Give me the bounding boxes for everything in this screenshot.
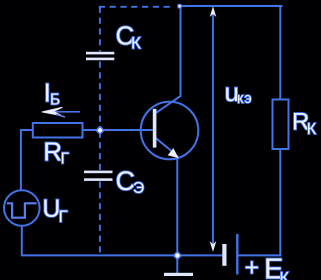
generator UG pulse symbol	[7, 203, 37, 217]
label CK	[116, 20, 142, 52]
wire top (collector node to right rail)	[179, 5, 283, 7]
transistor VT circle	[141, 102, 199, 160]
battery EK long plate	[236, 234, 238, 275]
capacitor CK plates	[86, 52, 114, 55]
dashed CE to bottom	[99, 182, 101, 256]
arrow IB tail flick	[56, 114, 65, 117]
dashed feedback line horizontal (top)	[99, 6, 174, 8]
wire RG left to corner	[21, 130, 33, 190]
dashed CK to node	[99, 62, 101, 130]
battery EK short plate	[222, 244, 226, 266]
arrow ukэ vertical line	[212, 12, 214, 247]
ground bar	[164, 273, 193, 276]
wire bottom right (battery to rail)	[237, 254, 281, 256]
dashed node to CE	[99, 132, 101, 171]
resistor RK	[273, 100, 289, 150]
wire IB arrow line	[44, 111, 80, 113]
label ukэ	[225, 77, 253, 107]
label RK	[292, 108, 317, 137]
wire right rail upper	[279, 6, 281, 100]
label +EK	[245, 254, 290, 280]
node emitter bottom	[172, 251, 182, 261]
label IB	[44, 78, 61, 109]
arrow IB head	[42, 107, 62, 115]
wire ground stem	[176, 255, 178, 273]
svg-text:+: +	[245, 254, 260, 280]
generator UG circle	[4, 190, 40, 226]
svg-text:Г: Г	[59, 207, 68, 226]
svg-text:R: R	[43, 136, 62, 166]
svg-text:К: К	[280, 270, 290, 280]
arrow ukэ head up	[210, 6, 217, 17]
resistor RG	[33, 123, 83, 138]
dashed CK branch upper	[99, 7, 101, 52]
svg-text:К: К	[131, 33, 141, 52]
wire base to RG	[83, 129, 101, 131]
wire UG bottom	[21, 226, 23, 256]
node collector top	[177, 4, 181, 9]
transistor emitter arrowhead	[168, 148, 179, 158]
label UG	[42, 195, 67, 226]
wire base lead	[100, 129, 153, 131]
label CE	[116, 166, 145, 197]
svg-text:кэ: кэ	[237, 91, 252, 107]
svg-text:Э: Э	[133, 180, 144, 197]
svg-text:Б: Б	[50, 92, 60, 109]
wire emitter lead diagonal	[156, 138, 173, 152]
wire collector vertical	[180, 6, 182, 97]
label RG	[43, 136, 69, 167]
capacitor CE plates	[84, 171, 113, 174]
wire right rail lower	[279, 149, 281, 255]
svg-text:Г: Г	[61, 151, 70, 168]
node base junction	[95, 125, 105, 135]
wire bottom rail	[21, 254, 223, 256]
transistor base bar	[153, 109, 157, 148]
wire emitter vertical	[176, 155, 178, 255]
svg-text:К: К	[307, 121, 317, 138]
wire collector lead diagonal	[156, 96, 181, 113]
arrow ukэ head down	[210, 241, 217, 252]
